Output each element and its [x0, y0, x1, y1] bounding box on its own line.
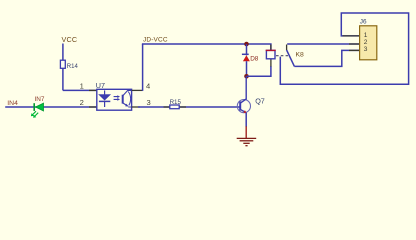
junction top of D8: [244, 42, 249, 47]
J6 pin 1 stub dark: [343, 35, 361, 37]
wire pole to J6 pin 2: [287, 43, 360, 45]
wire JD-VCC riser: [142, 44, 144, 91]
transistor Q7: [237, 76, 264, 113]
svg-text:2: 2: [364, 39, 368, 46]
pin 1 stub dark: [89, 89, 97, 91]
J6 pin 2 stub dark: [349, 43, 360, 45]
relay K8 coil: [266, 50, 276, 58]
wire Q7 emitter down: [245, 113, 247, 127]
wire U7 pin3 to Q7 base: [138, 106, 240, 108]
wire IN4 to U7 pin 2: [5, 106, 97, 108]
wire J6 pin 1 loop: [280, 13, 408, 84]
pin 2 stub dark: [89, 106, 97, 108]
pin 3 stub: [132, 106, 140, 108]
wire D8 to relay coil: [247, 66, 271, 76]
coupling arrows: [114, 97, 118, 100]
svg-text:U7: U7: [96, 81, 105, 90]
svg-text:J6: J6: [360, 19, 367, 26]
relay coil pin stubs: [270, 45, 272, 67]
wire VCC to U7 pin 1: [63, 89, 97, 91]
pin 4 stub: [132, 89, 143, 91]
resistor R15: [164, 99, 187, 109]
diode D8: [242, 44, 259, 76]
LED inside U7: [104, 90, 106, 94]
svg-text:4: 4: [146, 82, 150, 91]
svg-text:K8: K8: [296, 51, 305, 58]
svg-text:IN7: IN7: [35, 96, 45, 103]
resistor R14: [60, 60, 65, 68]
diode IN7 (LED): [31, 96, 45, 118]
junction bottom of D8: [244, 74, 249, 79]
phototransistor inside U7: [122, 95, 124, 104]
optocoupler U7: [96, 81, 132, 110]
dashed actuator link: [276, 55, 288, 57]
relay K8 switch: [287, 45, 304, 67]
svg-text:2: 2: [80, 98, 84, 107]
svg-text:JD-VCC: JD-VCC: [143, 37, 168, 44]
svg-text:IN4: IN4: [7, 100, 18, 107]
svg-text:3: 3: [364, 46, 368, 53]
svg-text:Q7: Q7: [255, 97, 265, 106]
ground: [237, 126, 257, 145]
connector J6: [360, 19, 377, 60]
svg-text:1: 1: [80, 81, 84, 90]
J6 pin 3 stub dark: [349, 49, 360, 51]
svg-text:R14: R14: [67, 64, 79, 70]
svg-text:D8: D8: [250, 56, 259, 63]
svg-text:VCC: VCC: [62, 35, 78, 44]
wire JD-VCC rail: [142, 44, 271, 51]
svg-text:1: 1: [364, 32, 368, 39]
svg-text:3: 3: [147, 98, 151, 107]
wire contact to J6 pin 3: [294, 50, 360, 66]
wire VCC stem: [62, 44, 64, 91]
